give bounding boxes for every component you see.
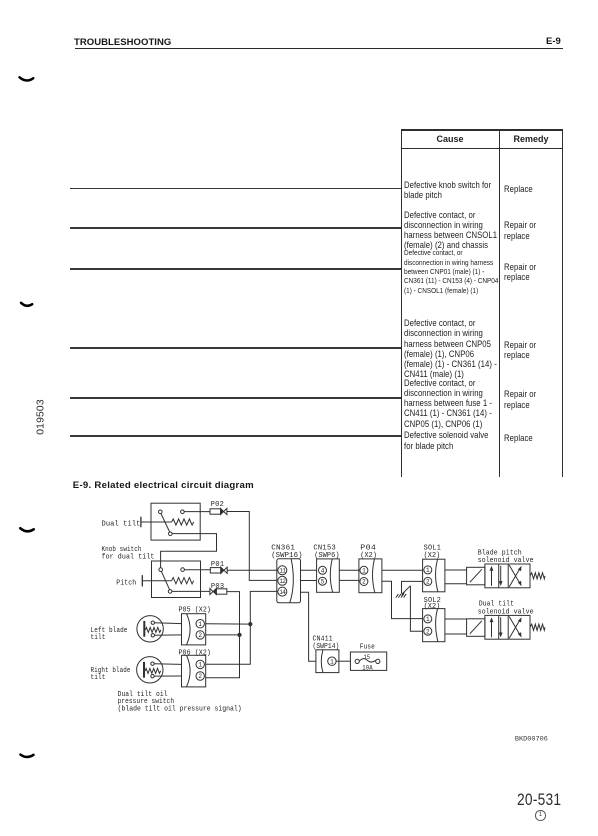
cause row 1	[404, 180, 491, 200]
connector P01	[210, 567, 227, 573]
connector CN361 body	[277, 559, 301, 603]
ground diagonal from SOL2 branch	[402, 586, 410, 594]
valve2 solenoid actuator	[467, 619, 485, 637]
ground (chassis)	[396, 594, 406, 598]
wire pswitch2 to P06-2	[154, 675, 181, 677]
valve2 up arrow	[490, 617, 494, 637]
cause row 6	[404, 430, 489, 450]
wire SOL1 to valve1 bottom	[445, 583, 467, 585]
switch1 terminal bottom	[169, 532, 173, 536]
switch2 blade	[161, 571, 169, 590]
wire CN361 pin14 down to P06 pin1	[206, 591, 277, 664]
wire pswitch2 to P06-1	[154, 663, 181, 666]
left row line 3	[70, 268, 402, 270]
P06 pin 1	[196, 660, 204, 668]
left row line 4	[70, 347, 402, 349]
svg-text:(blade tilt oil pressure signa: (blade tilt oil pressure signal)	[118, 705, 242, 713]
svg-text:BKD00706: BKD00706	[515, 735, 548, 743]
binding mark 1	[20, 77, 34, 80]
cause row 5	[404, 378, 492, 429]
svg-text:tilt: tilt	[91, 634, 106, 642]
SOL1 pin 2	[424, 577, 432, 585]
wire P05 pin1 to junction	[206, 623, 250, 625]
wire CN411 to fuse	[336, 660, 350, 662]
connector P04 body	[359, 559, 382, 593]
remedy row 1	[504, 184, 533, 194]
P05 pin 1	[196, 620, 204, 628]
valve1 return spring	[530, 573, 545, 579]
connector P02	[210, 508, 227, 514]
wire CN153-5 to P04-2	[339, 579, 359, 581]
wire SOL1 to valve1 top	[445, 569, 467, 571]
pressure switch 2 (right blade tilt)	[137, 657, 163, 683]
wire SOL2 to valve2 bottom	[445, 633, 467, 635]
switch1 resistor	[172, 519, 194, 525]
remedy row 2	[504, 220, 536, 240]
CN361 pin 14	[278, 587, 287, 596]
header text TROUBLESHOOTING	[74, 37, 171, 48]
wire P04-1 to SOL1-1	[382, 569, 423, 571]
P04 pin 1	[360, 566, 368, 574]
ground arrowhead	[401, 592, 405, 596]
svg-text:Dual tilt: Dual tilt	[479, 601, 514, 609]
svg-text:Dual tilt: Dual tilt	[102, 520, 141, 528]
svg-text:P02: P02	[211, 501, 225, 509]
cause row 3	[404, 248, 498, 294]
switch1 terminal top-left	[159, 510, 163, 514]
page number 20-531	[517, 790, 561, 810]
pressure switch 1 (left blade tilt)	[137, 616, 163, 642]
CN153 pin 5	[319, 577, 327, 585]
CN411 pin 1	[328, 657, 336, 665]
valve1 up arrow	[490, 566, 494, 586]
P04 pin 2	[360, 578, 368, 586]
valve1 divider 1	[498, 564, 500, 588]
valve2 return spring	[530, 624, 545, 630]
connector SOL2 body	[423, 609, 445, 642]
CN153 pin 4	[319, 566, 327, 574]
svg-text:019503: 019503	[36, 399, 47, 435]
header rule	[75, 48, 563, 50]
junction dot CN361-14/P05-1	[248, 622, 252, 626]
svg-text:10A: 10A	[362, 664, 373, 671]
svg-text:11: 11	[279, 568, 286, 575]
svg-text:2: 2	[426, 628, 430, 635]
switch2 lead wire	[142, 580, 171, 582]
wire CN361-11 to CN153-4	[301, 569, 317, 571]
P05 pin 2	[196, 631, 204, 639]
svg-text:1: 1	[198, 662, 202, 669]
svg-text:for dual tilt: for dual tilt	[102, 553, 155, 561]
wire SOL1-2 to ground	[402, 581, 423, 593]
table left border	[401, 129, 402, 477]
valve2 divider 2	[507, 615, 509, 639]
remedy row 4	[504, 340, 536, 360]
connector SOL1 body	[423, 559, 445, 592]
left row line 6	[70, 435, 402, 437]
svg-text:2: 2	[362, 579, 366, 586]
wire P03 down to P06 pin2	[206, 592, 240, 678]
wire P05 pin2 to junction	[206, 634, 240, 636]
fuse element	[355, 659, 380, 664]
wire pswitch1 to P05-2	[155, 634, 182, 636]
connector P05 body	[182, 614, 206, 645]
remedy row 5	[504, 389, 536, 409]
wire switch1 to P02	[184, 511, 210, 513]
left row line 2	[70, 227, 402, 229]
switch1 lead terminal bar	[140, 517, 142, 528]
CN361 pin 11	[278, 566, 287, 575]
SOL1 pin 1	[424, 566, 432, 574]
valve1 crossed arrows	[509, 565, 521, 587]
svg-text:1: 1	[198, 621, 202, 628]
svg-text:1: 1	[330, 658, 334, 665]
valve2 divider 1	[498, 615, 500, 639]
left row line 1	[70, 188, 402, 190]
left row line 5	[70, 397, 402, 399]
svg-text:(X2): (X2)	[424, 552, 441, 560]
binding mark 3	[20, 528, 33, 531]
wire P02 to CN361 pin12	[227, 512, 277, 581]
wire P01 to CN361 pin11	[227, 569, 277, 571]
table header underline	[401, 148, 564, 149]
wire SOL2 to valve2 top	[445, 618, 467, 620]
cause row 2	[404, 210, 497, 251]
connector P06 body	[182, 655, 206, 687]
switch2 terminal top-left	[159, 568, 163, 572]
switch1 lead wire	[141, 521, 172, 523]
table right border	[562, 129, 563, 477]
wire switch2 bottom to P03	[172, 590, 210, 592]
fuse box	[350, 652, 386, 670]
knob switch box 1 (dual tilt)	[151, 503, 200, 540]
remedy row 6	[504, 433, 533, 443]
valve1 down arrow	[499, 566, 503, 586]
wire switch1 bottom to switch2 top-left	[161, 534, 217, 568]
wire P04-2 to SOL2-1	[382, 581, 423, 618]
SOL2 pin 1	[424, 615, 432, 623]
svg-text:2: 2	[198, 673, 202, 680]
table header Cause	[401, 134, 499, 144]
svg-text:2: 2	[426, 579, 430, 586]
svg-text:1: 1	[362, 568, 366, 575]
svg-text:15: 15	[364, 654, 371, 661]
valve2 body	[485, 615, 530, 639]
wire CN153-4 to P04-1	[339, 569, 359, 571]
section title	[73, 480, 254, 491]
switch2 terminal top-right	[181, 568, 185, 572]
cause row 4	[404, 318, 497, 379]
table header Remedy	[500, 134, 562, 144]
svg-text:4: 4	[321, 568, 325, 575]
svg-text:12: 12	[279, 578, 286, 585]
svg-text:Pitch: Pitch	[116, 579, 136, 587]
wire CN361-14 to CN411	[301, 592, 316, 661]
wire CN361-12 to CN153-5	[301, 580, 317, 582]
valve2 crossed arrows	[509, 617, 521, 639]
switch2 resistor	[172, 578, 194, 584]
svg-text:1: 1	[426, 616, 430, 623]
valve1 body	[485, 564, 530, 588]
knob switch box 2 (pitch)	[152, 561, 201, 598]
binding mark 2	[21, 303, 32, 306]
connector CN411 body	[316, 650, 339, 673]
table column divider	[499, 129, 500, 477]
switch1 blade	[161, 513, 170, 532]
svg-text:2: 2	[198, 632, 202, 639]
wire SOL2-2 to ground branch	[410, 586, 422, 632]
valve1 solenoid actuator	[467, 567, 485, 585]
junction dot P03/P05-2	[237, 633, 241, 637]
svg-text:tilt: tilt	[91, 674, 106, 682]
switch1 terminal top-right	[181, 510, 185, 514]
P06 pin 2	[196, 672, 204, 680]
wire pswitch1 to P05-1	[155, 622, 182, 625]
CN361 pin 12	[278, 576, 287, 585]
SOL2 pin 2	[424, 627, 432, 635]
valve1 divider 2	[507, 564, 509, 588]
table top border	[401, 129, 564, 130]
connector CN153 body	[317, 559, 340, 592]
remedy row 3	[504, 262, 536, 282]
wire switch2 to P01	[184, 569, 210, 571]
binding mark 4	[21, 755, 34, 757]
svg-text:P03: P03	[211, 583, 225, 591]
valve2 down arrow	[499, 617, 503, 637]
svg-text:5: 5	[321, 578, 325, 585]
switch2 lead terminal bar	[141, 575, 143, 586]
svg-text:1: 1	[426, 567, 430, 574]
circled 1 footer	[535, 810, 546, 821]
svg-text:14: 14	[279, 589, 286, 596]
svg-text:Fuse: Fuse	[360, 643, 375, 651]
header text E-9	[546, 36, 561, 47]
connector P03	[210, 588, 227, 594]
switch2 terminal bottom	[168, 590, 172, 594]
